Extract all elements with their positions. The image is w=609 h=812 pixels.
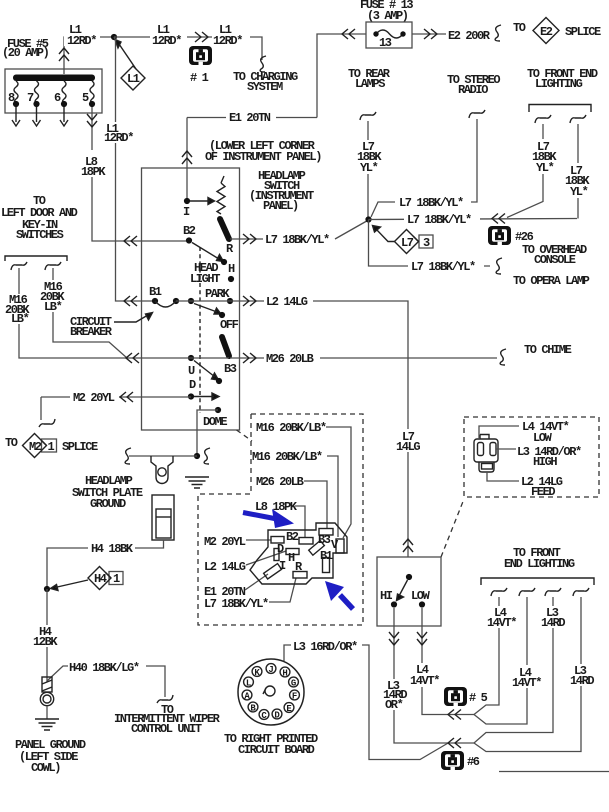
svg-text:12BK: 12BK: [33, 635, 58, 649]
svg-text:B2: B2: [183, 224, 196, 238]
svg-text:END LIGHTING: END LIGHTING: [504, 557, 575, 571]
svg-text:M2 20YL: M2 20YL: [73, 391, 115, 405]
svg-text:L8 18PK: L8 18PK: [255, 500, 298, 514]
svg-text:C: C: [261, 711, 267, 721]
svg-text:H4 18BK: H4 18BK: [91, 542, 134, 556]
svg-text:(20 AMP): (20 AMP): [2, 46, 49, 60]
svg-text:E: E: [286, 704, 292, 714]
svg-text:12RD*: 12RD*: [104, 131, 133, 145]
svg-text:L7: L7: [401, 236, 414, 250]
svg-text:14RD: 14RD: [541, 616, 565, 630]
svg-text:#6: #6: [467, 755, 480, 769]
svg-text:YL*: YL*: [360, 161, 378, 175]
svg-text:YL*: YL*: [536, 161, 554, 175]
svg-text:LIGHTING: LIGHTING: [535, 77, 583, 91]
svg-text:B: B: [250, 703, 256, 713]
svg-text:CIRCUIT BOARD: CIRCUIT BOARD: [238, 743, 315, 757]
svg-text:B3: B3: [318, 533, 331, 547]
svg-text:L7 18BK/YL*: L7 18BK/YL*: [204, 597, 268, 611]
svg-text:18PK: 18PK: [81, 165, 106, 179]
svg-text:LOW: LOW: [411, 589, 431, 603]
svg-text:SYSTEM: SYSTEM: [247, 80, 283, 94]
svg-text:M26 20LB: M26 20LB: [266, 352, 314, 366]
svg-text:M2: M2: [29, 440, 42, 454]
svg-text:12RD*: 12RD*: [213, 34, 242, 48]
svg-text:# 1: # 1: [190, 71, 209, 85]
svg-text:YL*: YL*: [570, 185, 588, 199]
svg-text:A: A: [244, 691, 250, 701]
svg-text:DOME: DOME: [203, 415, 227, 429]
svg-text:LB*: LB*: [44, 300, 62, 314]
svg-text:H4: H4: [94, 572, 107, 586]
svg-text:LOW: LOW: [533, 431, 553, 445]
svg-text:FEED: FEED: [531, 485, 555, 499]
svg-text:L3 16RD/OR*: L3 16RD/OR*: [293, 640, 357, 654]
svg-text:14VT*: 14VT*: [487, 616, 516, 630]
svg-text:SWITCHES: SWITCHES: [16, 228, 64, 242]
svg-text:OFF: OFF: [220, 318, 239, 332]
svg-text:L7 18BK/YL*: L7 18BK/YL*: [399, 196, 463, 210]
svg-text:B1: B1: [149, 285, 162, 299]
svg-text:M16 20BK/LB*: M16 20BK/LB*: [252, 450, 322, 464]
svg-text:RADIO: RADIO: [458, 83, 488, 97]
svg-text:HIGH: HIGH: [533, 455, 557, 469]
svg-text:B3: B3: [224, 362, 237, 376]
svg-text:E1 20TN: E1 20TN: [229, 111, 271, 125]
svg-text:K: K: [254, 668, 260, 678]
svg-text:H40 18BK/LG*: H40 18BK/LG*: [69, 661, 139, 675]
svg-text:14VT*: 14VT*: [410, 674, 439, 688]
svg-text:SPLICE: SPLICE: [565, 25, 601, 39]
svg-text:L7 18BK/YL*: L7 18BK/YL*: [411, 260, 475, 274]
svg-text:M26 20LB: M26 20LB: [256, 475, 304, 489]
svg-text:F: F: [292, 691, 297, 701]
svg-text:CONSOLE: CONSOLE: [534, 253, 576, 267]
svg-text:OF INSTRUMENT PANEL): OF INSTRUMENT PANEL): [205, 150, 321, 164]
svg-text:E2: E2: [540, 25, 553, 39]
svg-text:TO OPERA LAMP: TO OPERA LAMP: [513, 274, 590, 288]
svg-text:M16 20BK/LB*: M16 20BK/LB*: [256, 421, 326, 435]
svg-text:LAMPS: LAMPS: [355, 77, 385, 91]
svg-text:HI: HI: [380, 589, 393, 603]
svg-text:CONTROL UNIT: CONTROL UNIT: [131, 722, 202, 736]
svg-text:M2 20YL: M2 20YL: [204, 535, 246, 549]
svg-text:TO: TO: [513, 21, 526, 35]
svg-text:SPLICE: SPLICE: [62, 440, 98, 454]
svg-text:13: 13: [379, 36, 392, 50]
svg-text:D: D: [274, 710, 280, 720]
svg-text:B2: B2: [286, 530, 299, 544]
svg-text:TO CHIME: TO CHIME: [524, 343, 572, 357]
svg-text:L1: L1: [127, 72, 140, 86]
svg-text:14VT*: 14VT*: [512, 676, 541, 690]
svg-text:L7 18BK/YL*: L7 18BK/YL*: [265, 233, 329, 247]
svg-text:12RD*: 12RD*: [67, 34, 96, 48]
svg-text:PARK: PARK: [205, 287, 230, 301]
svg-text:B1: B1: [320, 549, 333, 563]
svg-text:L: L: [246, 678, 251, 688]
svg-text:PANEL): PANEL): [263, 199, 298, 213]
svg-text:(3 AMP): (3 AMP): [367, 9, 408, 23]
svg-text:L7 18BK/YL*: L7 18BK/YL*: [407, 213, 471, 227]
svg-text:# 5: # 5: [469, 691, 488, 705]
svg-text:LIGHT: LIGHT: [190, 272, 220, 286]
svg-text:LB*: LB*: [11, 312, 29, 326]
svg-text:H: H: [282, 668, 287, 678]
svg-text:G: G: [291, 678, 296, 688]
svg-text:OR*: OR*: [385, 698, 403, 712]
svg-text:#26: #26: [515, 230, 534, 244]
svg-text:BREAKER: BREAKER: [70, 325, 113, 339]
svg-text:COWL): COWL): [31, 761, 60, 775]
svg-text:E2 200R: E2 200R: [448, 29, 491, 43]
svg-text:14RD: 14RD: [570, 674, 594, 688]
svg-text:14LG: 14LG: [396, 440, 420, 454]
svg-text:GROUND: GROUND: [90, 497, 126, 511]
svg-text:L2 14LG: L2 14LG: [266, 295, 308, 309]
svg-text:12RD*: 12RD*: [152, 34, 181, 48]
svg-text:L2 14LG: L2 14LG: [204, 560, 246, 574]
svg-text:J: J: [268, 665, 273, 675]
svg-text:TO: TO: [5, 436, 18, 450]
